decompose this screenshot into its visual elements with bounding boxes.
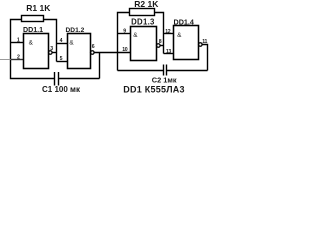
svg-text:12: 12 <box>165 29 170 35</box>
svg-text:9: 9 <box>123 29 126 35</box>
svg-text:&: & <box>133 32 138 39</box>
svg-text:C2 1мк: C2 1мк <box>152 76 177 85</box>
svg-text:10: 10 <box>122 47 127 53</box>
svg-text:R1 1K: R1 1K <box>26 3 51 13</box>
svg-text:DD1.4: DD1.4 <box>174 17 194 26</box>
svg-text:6: 6 <box>92 44 95 50</box>
svg-text:1: 1 <box>17 38 20 44</box>
svg-text:DD1.3: DD1.3 <box>131 18 155 27</box>
svg-text:R2 1K: R2 1K <box>134 0 159 9</box>
svg-text:DD1.1: DD1.1 <box>23 26 43 34</box>
svg-text:5: 5 <box>60 56 63 62</box>
svg-text:DD1 К555ЛА3: DD1 К555ЛА3 <box>123 85 185 95</box>
svg-text:DD1.2: DD1.2 <box>66 27 85 34</box>
svg-text:&: & <box>69 39 74 46</box>
svg-text:4: 4 <box>60 38 63 44</box>
svg-text:8: 8 <box>159 39 162 45</box>
svg-text:2: 2 <box>17 54 20 60</box>
svg-text:11: 11 <box>202 39 207 45</box>
svg-text:C1 100 мк: C1 100 мк <box>42 85 81 94</box>
svg-text:3: 3 <box>50 46 53 52</box>
svg-text:13: 13 <box>166 49 171 55</box>
svg-text:&: & <box>29 39 34 46</box>
svg-text:&: & <box>177 32 182 39</box>
